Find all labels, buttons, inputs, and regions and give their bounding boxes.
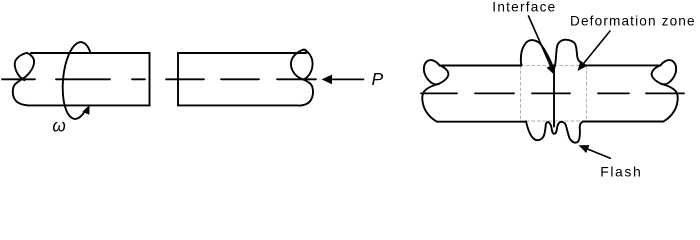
rod 3 bottom edges xyxy=(437,121,663,123)
rod 2 break (right end) xyxy=(291,50,313,106)
rod 1 body xyxy=(28,53,150,105)
svg-text:ω: ω xyxy=(52,116,65,136)
rod 1 break (left end) xyxy=(13,53,34,105)
deformation zone dashed box xyxy=(521,65,587,121)
flash top outline xyxy=(521,40,585,69)
flash label arrow xyxy=(579,145,611,158)
interface label arrow xyxy=(529,16,555,75)
svg-text:Interface: Interface xyxy=(492,0,556,14)
deformation zone label arrow xyxy=(578,31,611,71)
interface line xyxy=(553,69,555,127)
wire centerline figure1+2 xyxy=(2,78,316,80)
svg-text:Deformation zone: Deformation zone xyxy=(570,14,696,29)
rod 2 body xyxy=(178,53,306,105)
rod 3 break (right end) xyxy=(652,60,678,122)
rotation arrow ellipse xyxy=(63,42,91,119)
rod 3 top edges xyxy=(440,64,661,66)
svg-text:P: P xyxy=(372,69,384,89)
force arrow P xyxy=(322,75,364,85)
flash bottom outline xyxy=(526,121,583,142)
wire centerline figure3 xyxy=(421,92,684,94)
rod 3 break (left end) xyxy=(422,60,448,122)
svg-text:Flash: Flash xyxy=(600,164,642,179)
